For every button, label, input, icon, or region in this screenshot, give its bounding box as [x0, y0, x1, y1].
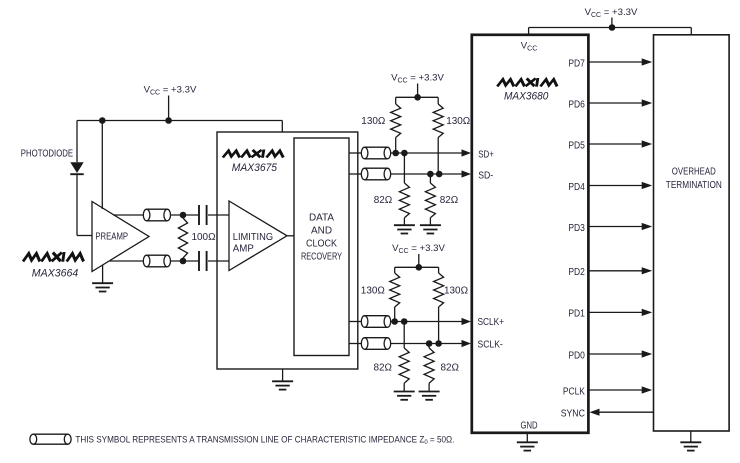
- arrow PD6: [642, 99, 653, 106]
- label pin SD+: [478, 150, 494, 161]
- svg-text:SD+: SD+: [478, 150, 494, 161]
- ground R4: [394, 225, 415, 233]
- power VCC supply label (left): [144, 85, 197, 121]
- wire PD5 to termination: [588, 143, 643, 145]
- node junction dot SCLK- a: [426, 340, 433, 347]
- svg-text:PD4: PD4: [568, 182, 585, 193]
- wire C1 to limiting amp: [208, 214, 229, 216]
- svg-text:130Ω: 130Ω: [361, 116, 385, 127]
- svg-text:AND: AND: [311, 226, 332, 237]
- node junction dot photodiode branch: [99, 117, 106, 124]
- transmission line T5: [361, 316, 390, 328]
- transmission line T4: [361, 168, 390, 180]
- arrow PCLK: [642, 386, 653, 393]
- svg-text:PD6: PD6: [568, 99, 585, 110]
- wire VCC rail (SD network): [396, 97, 439, 104]
- label pin PD3: [568, 223, 585, 234]
- svg-text:SD-: SD-: [478, 171, 493, 182]
- arrow PD2: [642, 267, 653, 274]
- wire T1 to cap: [170, 214, 199, 216]
- svg-text:130Ω: 130Ω: [361, 286, 385, 297]
- svg-text:PD7: PD7: [568, 58, 585, 69]
- svg-text:LIMITING: LIMITING: [233, 232, 273, 243]
- power VCC supply label (SD network): [391, 73, 444, 98]
- svg-text:82Ω: 82Ω: [440, 195, 459, 206]
- node junction dot VCC (SD): [414, 94, 421, 101]
- wire photodiode to preamp input: [77, 235, 92, 237]
- label MAX3680: [504, 90, 549, 102]
- wire SCLK- to MAX3680: [391, 343, 463, 345]
- wire PD6 to termination: [588, 102, 643, 104]
- node junction dot VCC (top right): [609, 24, 616, 31]
- ground R9: [419, 392, 440, 400]
- svg-text:RECOVERY: RECOVERY: [301, 252, 342, 263]
- svg-text:SYNC: SYNC: [561, 409, 586, 420]
- wire SD+ to MAX3680: [391, 152, 463, 154]
- resistor R1 100&#937;: [178, 218, 215, 258]
- logo MAXIM (MAX3664): [24, 253, 84, 260]
- resistor R4 82&#937;: [374, 153, 410, 225]
- wire preamp out-: [110, 260, 143, 262]
- arrow SCLK- into MAX3680: [462, 340, 472, 347]
- svg-text:PHOTODIODE: PHOTODIODE: [21, 149, 73, 160]
- capacitor C2: [199, 251, 207, 271]
- svg-text:MAX3664: MAX3664: [32, 267, 79, 279]
- label MAX3675: [232, 162, 278, 174]
- wire VCC feed MAX3680: [528, 28, 530, 35]
- label pin PCLK: [563, 386, 585, 397]
- wire PD2 to termination: [588, 270, 643, 272]
- node junction dot SD- a: [427, 171, 434, 178]
- ground preamp: [92, 265, 113, 292]
- op-amp U1 PREAMP triangle: [92, 202, 149, 272]
- svg-text:PD1: PD1: [568, 309, 585, 320]
- logo MAXIM (MAX3680): [498, 79, 557, 85]
- wire PD0 to termination: [588, 353, 643, 355]
- label pin PD5: [568, 140, 585, 151]
- wire SD+ from recovery: [349, 152, 361, 154]
- wire SCLK- from recovery: [349, 343, 361, 345]
- resistor R6 130&#937;: [361, 273, 400, 322]
- svg-text:82Ω: 82Ω: [441, 363, 460, 374]
- resistor R3 130&#937;: [433, 104, 470, 174]
- svg-text:OVERHEAD: OVERHEAD: [672, 167, 716, 178]
- node junction dot out+: [180, 212, 187, 219]
- wire PD3 to termination: [588, 226, 643, 228]
- IC U3 MAX3680 box: [472, 35, 589, 433]
- svg-text:PD2: PD2: [568, 267, 585, 278]
- node junction dot SD+ b: [401, 150, 408, 157]
- svg-text:MAX3675: MAX3675: [232, 162, 278, 174]
- ground overhead termination: [680, 431, 701, 451]
- node junction dot out-: [180, 258, 187, 265]
- label pin PD6: [568, 99, 585, 110]
- svg-text:SCLK-: SCLK-: [478, 339, 503, 350]
- svg-text:PD0: PD0: [568, 350, 585, 361]
- photodiode D1: [70, 121, 83, 236]
- wire SCLK+ to MAX3680: [391, 321, 463, 323]
- arrow PD5: [642, 140, 653, 147]
- svg-text:DATA: DATA: [309, 213, 334, 224]
- svg-text:100Ω: 100Ω: [192, 232, 216, 243]
- label pin PD1: [568, 309, 585, 320]
- wire preamp out+: [113, 214, 143, 216]
- svg-text:CLOCK: CLOCK: [306, 239, 337, 250]
- resistor R7 130&#937;: [434, 273, 469, 344]
- wire PD7 to termination: [588, 61, 643, 63]
- label GND pin: [521, 421, 538, 432]
- label pin PD7: [568, 58, 585, 69]
- IC U2 MAX3675 box: [217, 132, 358, 369]
- label pin PD0: [568, 350, 585, 361]
- arrow SCLK+ into MAX3680: [462, 318, 472, 325]
- ground R8: [394, 392, 415, 400]
- svg-text:PREAMP: PREAMP: [95, 232, 128, 243]
- label pin SCLK-: [478, 339, 503, 350]
- node junction dot SCLK+ a: [391, 318, 398, 325]
- resistor R8 82&#937;: [374, 322, 410, 392]
- svg-text:THIS SYMBOL REPRESENTS A TRANS: THIS SYMBOL REPRESENTS A TRANSMISSION LI…: [75, 435, 454, 447]
- label pin PD2: [568, 267, 585, 278]
- svg-text:PD5: PD5: [568, 140, 585, 151]
- wire SD- to MAX3680: [391, 173, 463, 175]
- arrow SD- into MAX3680: [462, 170, 472, 177]
- ground R5: [420, 225, 441, 233]
- node junction dot SD- b: [436, 171, 443, 178]
- transmission line T3: [361, 147, 390, 159]
- svg-text:130Ω: 130Ω: [444, 286, 468, 297]
- arrow SD+ into MAX3680: [462, 149, 472, 156]
- power VCC supply label (SCLK network): [392, 243, 445, 267]
- resistor R5 82&#937;: [425, 174, 458, 225]
- wire VCC rail (left): [77, 121, 282, 133]
- label MAX3664: [32, 267, 79, 279]
- wire SD- from recovery: [349, 173, 361, 175]
- wire VCC to preamp top: [101, 121, 103, 210]
- node junction dot SD+ a: [392, 150, 399, 157]
- svg-text:AMP: AMP: [233, 244, 254, 255]
- arrow PD1: [642, 309, 653, 316]
- svg-text:SCLK+: SCLK+: [478, 317, 505, 328]
- op-amp U2a LIMITING AMP triangle: [229, 201, 287, 271]
- power VCC supply label (top right): [585, 7, 638, 28]
- arrow SYNC: [590, 409, 600, 416]
- wire VCC rail (top right): [529, 28, 692, 35]
- svg-text:MAX3680: MAX3680: [504, 90, 549, 102]
- arrow PD4: [642, 182, 653, 189]
- label pin SCLK+: [478, 317, 505, 328]
- label Vcc pin: [521, 40, 538, 52]
- node junction dot SCLK- b: [435, 340, 442, 347]
- note transmission line legend text: [75, 435, 454, 447]
- wire VCC rail (SCLK network): [395, 267, 439, 273]
- transmission line symbol (legend): [30, 434, 71, 444]
- resistor R2 130&#937;: [361, 104, 400, 153]
- wire SYNC from termination: [598, 411, 654, 413]
- wire limiting amp to recovery block: [287, 235, 294, 237]
- arrow PD7: [642, 58, 653, 65]
- wire PCLK to termination: [588, 389, 643, 391]
- transmission line T1: [143, 209, 170, 221]
- logo MAXIM (MAX3675): [224, 151, 284, 157]
- wire C2 to limiting amp: [208, 260, 229, 262]
- svg-text:PCLK: PCLK: [563, 386, 585, 397]
- arrow PD3: [642, 223, 653, 230]
- wire SCLK+ from recovery: [349, 321, 361, 323]
- capacitor C1: [199, 205, 207, 225]
- svg-text:82Ω: 82Ω: [374, 363, 393, 374]
- svg-text:PD3: PD3: [568, 223, 585, 234]
- svg-text:82Ω: 82Ω: [374, 195, 393, 206]
- ground MAX3675: [272, 369, 293, 390]
- label pin PD4: [568, 182, 585, 193]
- ground MAX3680: [517, 433, 538, 451]
- svg-text:130Ω: 130Ω: [446, 116, 470, 127]
- svg-text:GND: GND: [521, 421, 538, 432]
- block OVERHEAD TERMINATION: [654, 35, 730, 431]
- wire T2 to cap: [170, 260, 199, 262]
- arrow PD0: [642, 350, 653, 357]
- transmission line T6: [361, 338, 390, 350]
- transmission line T2: [143, 255, 170, 267]
- node junction dot VCC stub: [165, 117, 172, 124]
- wire PD4 to termination: [588, 185, 643, 187]
- label pin SYNC: [561, 409, 586, 420]
- node junction dot SCLK+ b: [401, 318, 408, 325]
- node junction dot VCC (SCLK): [416, 264, 423, 271]
- resistor R9 82&#937;: [424, 344, 459, 392]
- block DATA AND CLOCK RECOVERY: [294, 138, 349, 356]
- svg-text:TERMINATION: TERMINATION: [666, 180, 722, 191]
- wire PD1 to termination: [588, 311, 643, 313]
- photodiode D1 label: [21, 149, 73, 160]
- label pin SD-: [478, 171, 493, 182]
